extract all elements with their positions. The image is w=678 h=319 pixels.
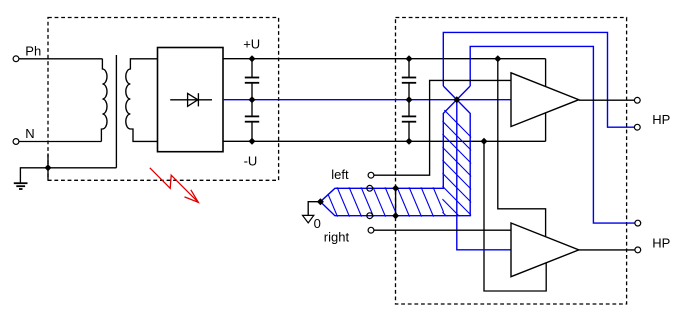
earth ground symbol <box>14 183 28 189</box>
svg-text:0: 0 <box>314 216 321 231</box>
transformer T1 primary winding <box>101 59 107 142</box>
capacitor C4 <box>402 100 416 142</box>
wire earth <box>20 168 116 183</box>
cable shield edge B (crossover) <box>320 86 470 216</box>
terminal left shield <box>367 185 373 191</box>
junction shield point <box>317 198 324 205</box>
wire earth to enclosure <box>47 154 49 181</box>
svg-text:-U: -U <box>244 153 258 168</box>
rail 0V blue <box>223 99 512 101</box>
terminal Ph <box>13 56 19 62</box>
junction dots C1 C2 <box>249 55 256 62</box>
capacitor C2 <box>245 100 259 142</box>
transformer T1 secondary winding <box>126 59 158 142</box>
enclosure: amplifier dashed box <box>396 18 627 305</box>
terminal HP upper + <box>634 97 640 103</box>
wire +U feed to lower amp <box>498 59 546 237</box>
wire input left to A1 <box>374 80 511 175</box>
capacitor C1 <box>245 59 259 100</box>
shield tie wire <box>395 188 397 215</box>
wire shield to ground 0 <box>308 202 320 216</box>
cable center conductor blue <box>457 100 512 250</box>
op-amp A2 <box>511 223 579 277</box>
junction shield tie bottom <box>392 212 399 219</box>
surge arrow red <box>150 168 199 203</box>
rail -U <box>223 140 546 142</box>
terminal right shield <box>367 213 373 219</box>
rail +U <box>223 58 546 60</box>
junction -U feed <box>481 138 488 145</box>
terminal right <box>368 227 374 233</box>
diode inside rectifier <box>170 99 212 101</box>
terminal HP lower + <box>635 220 641 226</box>
wire V+ upper amp <box>545 59 547 86</box>
wire A1 output <box>579 99 635 101</box>
wire Ph <box>19 58 102 60</box>
junction earth/screen <box>45 164 52 171</box>
junction crossover 0V <box>453 96 460 103</box>
transformer T1 core screen <box>115 55 117 168</box>
svg-text:N: N <box>25 126 34 141</box>
blue wire right channel to HP <box>470 46 635 223</box>
svg-text:left: left <box>331 167 349 182</box>
capacitor C3 <box>402 59 416 100</box>
svg-text:+U: +U <box>243 36 260 51</box>
wire -U feed to lower amp <box>484 141 546 291</box>
svg-text:right: right <box>324 230 350 245</box>
cable hatching vertical band <box>442 108 471 242</box>
svg-text:Ph: Ph <box>25 43 41 58</box>
junction +U feed <box>494 55 501 62</box>
terminal HP upper - <box>634 124 640 130</box>
svg-text:HP: HP <box>652 235 670 250</box>
wire A2 output <box>579 249 635 251</box>
wire input right to A2 <box>374 229 512 231</box>
wire N <box>19 141 101 143</box>
cable shield edge A (crossover) <box>320 86 470 202</box>
op-amp A1 <box>511 73 579 127</box>
terminal N <box>13 139 19 145</box>
svg-text:HP: HP <box>652 112 670 127</box>
terminal left <box>368 172 374 178</box>
junction shield tie top <box>392 185 399 192</box>
wire V- upper amp <box>545 113 547 141</box>
cable hatching horizontal band <box>325 187 470 217</box>
terminal HP lower - <box>635 247 641 253</box>
bridge rectifier U1 <box>158 48 224 152</box>
enclosure: power supply dashed box <box>48 18 279 181</box>
junction dots C3 C4 <box>406 55 413 62</box>
ground 0 symbol <box>303 215 314 223</box>
blue wire left channel to HP <box>443 32 634 127</box>
